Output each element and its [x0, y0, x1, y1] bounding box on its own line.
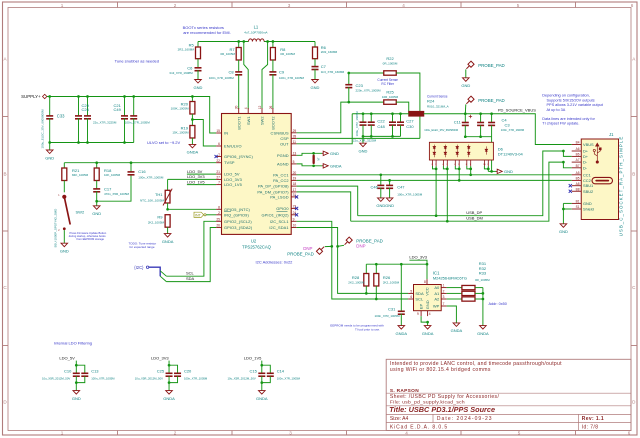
junction R28 SDA	[365, 292, 368, 295]
wire R20-R19	[191, 114, 193, 126]
diode array D6 internal diodes	[433, 145, 488, 158]
no-connect U2 pin 1	[215, 155, 218, 158]
capacitor C6	[195, 68, 202, 71]
svg-text:TPS25762CAQ: TPS25762CAQ	[242, 244, 272, 249]
ground WP	[453, 323, 460, 327]
svg-text:TH1: TH1	[155, 192, 163, 197]
U2 pin 23 GPIO0 stub	[291, 207, 296, 209]
svg-text:4: 4	[405, 431, 408, 436]
junction boot rail 2	[242, 40, 245, 43]
svg-text:10R_1005M: 10R_1005M	[382, 95, 399, 99]
svg-text:KiCad E.D.A. 8.0.5: KiCad E.D.A. 8.0.5	[390, 424, 448, 430]
svg-text:A2: A2	[434, 297, 440, 302]
svg-text:21: 21	[216, 170, 220, 174]
wire C15 top	[261, 365, 263, 373]
wire C15 bottom	[261, 376, 263, 382]
svg-text:A0: A0	[434, 285, 440, 290]
no-connect J1 SBU1	[569, 184, 572, 187]
wire SDA	[166, 228, 216, 282]
svg-text:GND: GND	[559, 229, 568, 234]
svg-text:8: 8	[218, 205, 220, 209]
wire SW2 pin	[262, 42, 268, 110]
wire D6 channel 2 drop	[446, 166, 448, 221]
junction vbus rail 4	[399, 112, 402, 115]
wire C49 bottom	[133, 118, 135, 142]
wire R31 left	[447, 287, 462, 289]
svg-text:EN/ULVO: EN/ULVO	[224, 144, 242, 149]
junction R22 C23	[347, 72, 350, 75]
U2 pin 22 TVSP stub	[216, 162, 221, 164]
junction SDA probe	[336, 245, 339, 248]
svg-text:PROBE_PAD: PROBE_PAD	[478, 63, 505, 68]
svg-text:for expected range: for expected range	[130, 245, 155, 249]
svg-text:100u_ELEC_35V_6605800M: 100u_ELEC_35V_6605800M	[424, 128, 458, 132]
switch SW2 lever	[64, 197, 70, 225]
svg-text:PPS allows 3-21V variable outp: PPS allows 3-21V variable output	[547, 103, 604, 107]
svg-text:Sheet: /USBC PD Supply for Acc: Sheet: /USBC PD Supply for Accessories/	[390, 394, 500, 400]
capacitor C8	[235, 72, 242, 75]
wire C3 bottom	[491, 125, 493, 136]
capacitor C16	[128, 172, 135, 175]
capacitor C26	[84, 116, 91, 119]
resistor R7	[236, 48, 241, 61]
svg-text:3: 3	[443, 295, 445, 299]
ground C46	[378, 198, 385, 202]
svg-text:DNP: DNP	[356, 243, 365, 248]
ground C31	[398, 326, 405, 330]
svg-text:9: 9	[417, 312, 419, 316]
svg-text:C9: C9	[279, 70, 285, 75]
wire WP	[447, 306, 457, 323]
title block box	[386, 359, 631, 430]
svg-text:3: 3	[288, 3, 291, 8]
capacitor C31	[398, 311, 405, 314]
wire probe pad 3	[338, 245, 344, 246]
J1 pin B5 CC2 stub	[572, 179, 582, 181]
junction C17 C16	[95, 200, 98, 203]
svg-text:BOOT2: BOOT2	[271, 117, 276, 130]
U2 pin 29 CSN/BUS stub	[291, 132, 296, 134]
wire R18-C17	[96, 181, 98, 189]
wire R7 top	[238, 42, 240, 48]
svg-text:GND: GND	[461, 83, 470, 88]
svg-text:CC2: CC2	[583, 178, 591, 183]
wire C7 gnd	[314, 69, 316, 80]
wire LDO_3V3 stub	[168, 361, 170, 366]
junction supply rail 1	[48, 95, 51, 98]
wire LDO_1V5	[187, 184, 216, 186]
junction supply rail 2	[77, 95, 80, 98]
ground LDO_3V3 filter	[166, 391, 173, 395]
U2 pin 11 OUT stub	[291, 143, 296, 145]
svg-text:20: 20	[293, 171, 297, 175]
svg-text:28: 28	[293, 135, 297, 139]
svg-text:are recommended for EMI.: are recommended for EMI.	[183, 30, 231, 35]
wire J1 gnd S1	[563, 208, 571, 210]
wire C30 bottom	[400, 125, 402, 136]
svg-text:PGND: PGND	[277, 153, 289, 158]
svg-text:18: 18	[293, 182, 297, 186]
svg-text:{I2C}: {I2C}	[134, 265, 144, 270]
wire USB_DP	[358, 151, 564, 216]
svg-text:DNP: DNP	[303, 246, 312, 251]
junction output gnd	[490, 170, 493, 173]
svg-text:4: 4	[244, 107, 248, 109]
wire C17-C16 rail	[97, 174, 131, 201]
svg-text:4: 4	[402, 3, 405, 8]
wire D6 channel 2 hook	[443, 166, 447, 169]
wire I2C_SCL1	[297, 221, 409, 299]
svg-text:LDO_5V: LDO_5V	[187, 169, 203, 174]
wire LDO_3V3 eeprom	[409, 260, 427, 279]
capacitor C27	[389, 122, 396, 125]
svg-text:C15: C15	[249, 368, 257, 373]
wire TH1 bottom	[167, 203, 169, 209]
wire C14 bottom	[262, 376, 271, 382]
svg-text:0R_1005M: 0R_1005M	[383, 61, 398, 65]
svg-text:C23: C23	[356, 83, 364, 88]
svg-text:At up to 3A: At up to 3A	[547, 108, 566, 112]
wire PA_DP	[297, 186, 358, 216]
svg-text:19: 19	[293, 177, 297, 181]
svg-text:C49: C49	[114, 107, 122, 112]
ground C47	[386, 198, 393, 202]
svg-text:GND: GND	[583, 201, 592, 206]
junction boot rail 3	[266, 40, 269, 43]
wire C31 top	[400, 264, 402, 311]
svg-text:100n_X7R_1005M: 100n_X7R_1005M	[279, 76, 305, 80]
J1 pin B4 VBUS stub	[572, 144, 582, 146]
diode array D6 pin stubs	[433, 160, 489, 166]
capacitor C48	[368, 122, 375, 125]
wire C33 bottom	[49, 118, 51, 142]
svg-text:2K2_1005M: 2K2_1005M	[383, 281, 400, 285]
wire C22 bottom	[362, 125, 364, 136]
wire C27 bottom	[392, 125, 394, 136]
wire C47 gnd	[389, 188, 391, 198]
svg-text:RC Filter: RC Filter	[381, 82, 395, 86]
capacitor C23	[345, 85, 352, 88]
IC1 pin 7 stub	[441, 305, 446, 307]
capacitor C33 plates	[46, 116, 53, 119]
junction supply rail 5	[132, 95, 135, 98]
svg-text:5: 5	[410, 290, 412, 294]
svg-text:A1: A1	[434, 291, 440, 296]
ground LDO_1V5 filter	[259, 391, 266, 395]
switch SW2 top contact	[62, 195, 66, 199]
resistor R31	[462, 285, 475, 289]
junction CC2 D6	[458, 179, 461, 182]
svg-text:100K_1005M: 100K_1005M	[171, 107, 189, 111]
no-connect U2 GPIO0	[295, 207, 298, 210]
wire R5 top	[197, 42, 199, 48]
svg-text:C27: C27	[406, 119, 414, 124]
wire CSN/BUS	[297, 102, 384, 133]
wire C47 top	[389, 180, 391, 185]
wire C20 bottom	[169, 376, 178, 382]
svg-text:10K_1005M: 10K_1005M	[104, 173, 121, 177]
J1 pin A8 SBU1 stub	[572, 185, 582, 187]
IC IC1 body	[414, 285, 442, 311]
wire LDO_5V branch top	[76, 365, 85, 373]
wire output caps ground rail	[465, 136, 491, 138]
svg-text:GNDA: GNDA	[162, 239, 174, 244]
junction boot rail 4	[272, 40, 275, 43]
wire PGND	[297, 153, 322, 155]
svg-text:GNDA: GNDA	[477, 331, 489, 336]
bus I2C	[149, 267, 160, 276]
svg-text:LDO_3V3: LDO_3V3	[151, 355, 169, 360]
svg-text:Id: 7/8: Id: 7/8	[582, 424, 599, 430]
svg-text:PA_LSGD: PA_LSGD	[270, 194, 289, 199]
svg-text:26: 26	[269, 105, 273, 109]
svg-text:Supports 5/9/15/20V outputs: Supports 5/9/15/20V outputs	[547, 98, 595, 102]
junction D6 channel 3	[458, 168, 461, 171]
svg-text:SUPPLY+: SUPPLY+	[21, 94, 41, 99]
junction LDO_5V top	[75, 364, 78, 367]
title block dividers	[386, 393, 631, 430]
svg-text:C31: C31	[388, 307, 396, 312]
junction output caps 0	[464, 135, 467, 138]
ground probe pad 1	[463, 78, 470, 82]
svg-text:EP: EP	[419, 304, 424, 310]
wire C23 bottom	[348, 87, 350, 102]
wire D6 gnd row	[488, 170, 496, 172]
svg-text:10u_X5R_2012M_50V: 10u_X5R_2012M_50V	[135, 376, 163, 380]
capacitor C9	[269, 72, 276, 75]
svg-text:Size: A4: Size: A4	[390, 416, 409, 422]
wire R25 right	[396, 102, 409, 114]
svg-text:D+: D+	[583, 149, 589, 154]
wire R21-SW2	[63, 181, 65, 193]
wire TH1 to GPIO5	[168, 208, 217, 210]
junction D6 channel 1	[435, 168, 438, 171]
svg-text:BOOT1: BOOT1	[236, 117, 241, 130]
svg-text:LDO_1V5: LDO_1V5	[244, 355, 262, 360]
junction D6 channel 4	[469, 168, 472, 171]
U2 pin 24 GPIO1_(IRQ2) stub	[291, 214, 296, 216]
svg-text:GPIO5_(NTC): GPIO5_(NTC)	[224, 207, 251, 212]
svg-text:10u_X5R_2012M_50V: 10u_X5R_2012M_50V	[42, 376, 70, 380]
U2 pin 21 LDO_5V stub	[216, 173, 221, 175]
U2 top pin 12 SW2 stub	[261, 108, 263, 113]
wire R22 right	[396, 73, 420, 138]
svg-text:2: 2	[218, 211, 220, 215]
wire pullup rail	[366, 263, 427, 265]
IC1 pin 3 stub	[441, 298, 446, 300]
resistor R32	[462, 291, 475, 295]
resistor R26	[374, 274, 379, 287]
wire LDO_5V stub	[75, 361, 77, 366]
svg-text:8: 8	[424, 280, 426, 284]
sheet frame row letters	[3, 57, 636, 405]
svg-text:C10: C10	[64, 368, 72, 373]
svg-text:I2C Addresses: 0x22: I2C Addresses: 0x22	[256, 260, 294, 265]
svg-text:100n_X7R_1005M: 100n_X7R_1005M	[138, 175, 164, 179]
net tie NT1	[313, 155, 315, 165]
svg-text:GND: GND	[45, 155, 54, 160]
svg-text:D+: D+	[583, 154, 589, 159]
wire D6 channel 3 hook	[455, 166, 459, 169]
junction DP pins	[562, 150, 565, 153]
wire R28 top	[365, 264, 367, 273]
svg-text:Depending on configuration,: Depending on configuration,	[542, 94, 590, 98]
svg-text:C47: C47	[397, 184, 405, 189]
junction rail C31	[400, 263, 403, 266]
svg-text:GND: GND	[504, 169, 513, 174]
svg-text:I2C_SDA1: I2C_SDA1	[269, 225, 288, 230]
svg-text:29: 29	[293, 129, 297, 133]
svg-text:1: 1	[443, 284, 445, 288]
capacitor C15	[258, 373, 265, 376]
capacitor C20	[174, 373, 181, 376]
U2 top pin 30 BOOT1 stub	[238, 108, 240, 113]
svg-text:C7: C7	[321, 64, 327, 69]
wire LDO_3V3	[168, 178, 217, 180]
wire C46 gnd	[380, 188, 382, 198]
U2 pin 28 CSP stub	[291, 137, 296, 139]
svg-text:10: 10	[293, 224, 297, 228]
svg-text:GPIO3_(SDA2): GPIO3_(SDA2)	[224, 225, 253, 230]
ground R31 R32 R33	[480, 326, 487, 330]
svg-text:100n_X7R_1005M: 100n_X7R_1005M	[375, 314, 401, 318]
wire C48 top	[370, 114, 372, 122]
IC1 pin 2 stub	[441, 292, 446, 294]
wire D6 channel 5 drop	[487, 166, 489, 171]
svg-text:SDA: SDA	[186, 276, 195, 281]
svg-text:4u7_10P7050mA: 4u7_10P7050mA	[244, 30, 267, 34]
wire CSP	[297, 137, 420, 139]
wire R20 top	[191, 97, 193, 102]
IC1 pin EP stub	[420, 311, 422, 316]
U2 pin 9 I2C_SCL1 stub	[291, 220, 296, 222]
svg-text:6: 6	[218, 142, 220, 146]
svg-text:11: 11	[293, 140, 297, 144]
svg-text:ULVO set to ~9.2V: ULVO set to ~9.2V	[147, 140, 180, 145]
svg-text:Internal LDO Filtering: Internal LDO Filtering	[54, 341, 92, 346]
U2 pin 7 LDO_1V5 stub	[216, 184, 221, 186]
svg-text:0R_1005M: 0R_1005M	[475, 278, 490, 282]
junction CSN C23	[347, 101, 350, 104]
U2 pin 31 PA_LSGD stub	[291, 196, 296, 198]
resistor R8	[270, 48, 275, 61]
wire C10 top	[75, 365, 77, 373]
svg-text:26: 26	[216, 224, 220, 228]
capacitor C29	[75, 116, 82, 119]
diode array D6 body	[429, 142, 493, 160]
no-connect U2 GPIO1	[295, 213, 298, 216]
U2 pin 1 GPIO6_(SYNC) stub	[216, 156, 221, 158]
resistor R6	[313, 47, 318, 59]
wire PA_CC1	[297, 174, 572, 176]
wire C25 bottom	[168, 376, 170, 382]
junction cap bank 0	[362, 135, 365, 138]
probe pad 4	[316, 247, 324, 255]
inductor L1	[249, 39, 265, 42]
wire USB_DM	[351, 162, 564, 221]
J1 pin B1 GND stub	[572, 202, 582, 204]
svg-text:A5: A5	[576, 171, 580, 175]
J1 pin S1 Shield stub	[572, 208, 582, 210]
J1 pin A6 D+ stub	[572, 150, 582, 152]
svg-text:SBU1: SBU1	[583, 183, 593, 188]
svg-text:B8: B8	[576, 187, 580, 191]
svg-text:2R2_1608M: 2R2_1608M	[321, 50, 338, 54]
resistor R33	[462, 297, 475, 301]
resistor R21	[62, 168, 67, 181]
svg-text:GNDA: GNDA	[396, 331, 408, 336]
wire AGND	[297, 164, 322, 166]
capacitor C14	[267, 373, 274, 376]
svg-text:GPIO6_(SYNC): GPIO6_(SYNC)	[224, 154, 253, 159]
junction ground rail 2	[86, 141, 89, 144]
svg-text:GPIO2_(SCL2): GPIO2_(SCL2)	[224, 219, 252, 224]
wire R5-C6	[197, 59, 199, 68]
J1 pin B6 D+ stub	[572, 155, 582, 157]
wire D6 channel 4 drop	[470, 166, 472, 175]
wire R22 row	[349, 72, 384, 74]
svg-text:GNDA: GNDA	[256, 396, 268, 401]
wire R26 top	[375, 264, 377, 273]
svg-text:INT: INT	[195, 214, 202, 218]
wire C11 bottom	[464, 125, 466, 136]
svg-text:2: 2	[443, 290, 445, 294]
sheet frame column ticks	[118, 2, 576, 435]
wire LDO_1V5 gnd	[261, 383, 263, 391]
wire C4 bottom	[480, 125, 482, 136]
svg-text:15: 15	[216, 129, 220, 133]
svg-text:GND: GND	[72, 396, 81, 401]
capacitor C3	[488, 123, 495, 126]
svg-text:B5: B5	[576, 177, 580, 181]
U2 pin 24 IRQ2 overbar	[277, 211, 288, 213]
svg-text:100n_X7R_1005M: 100n_X7R_1005M	[184, 376, 208, 380]
resistor R22	[384, 71, 397, 75]
IC1 pin 4 GND stub	[427, 311, 429, 316]
svg-text:C3: C3	[505, 123, 511, 128]
capacitor C13	[81, 373, 88, 376]
bus I2C circle	[146, 266, 148, 268]
wire R8-C9	[272, 60, 274, 72]
svg-text:C13: C13	[91, 368, 99, 373]
junction AGND	[312, 164, 315, 167]
junction CC2 C47	[388, 179, 391, 182]
junction supply rail 6	[191, 95, 194, 98]
svg-text:TI chipset FW update.: TI chipset FW update.	[542, 122, 579, 126]
svg-text:Addr: 0x50: Addr: 0x50	[489, 302, 507, 306]
wire PA_CC2	[297, 179, 572, 181]
J1 pin B8 SBU2 stub	[572, 190, 582, 192]
U2 pin 6 EN/ULVO stub	[216, 145, 221, 147]
connector J1 receptacle icon	[592, 177, 613, 183]
junction IC1 gnd	[426, 321, 429, 324]
svg-text:Rev: 1.1: Rev: 1.1	[582, 416, 604, 422]
svg-text:1: 1	[218, 153, 220, 157]
IC1 pin 6 stub	[408, 298, 413, 300]
junction D6 channel 2	[446, 168, 449, 171]
svg-text:IRQ_(GPIO9): IRQ_(GPIO9)	[224, 212, 249, 217]
wire vbus rail	[352, 113, 409, 115]
svg-text:USB_C_SOCKET_RA_PTH_SIMPLE: USB_C_SOCKET_RA_PTH_SIMPLE	[619, 136, 624, 237]
hierarchical label INT	[194, 212, 206, 218]
wire C31 bottom	[400, 314, 402, 326]
wire LDO_1V5 branch top	[262, 365, 271, 373]
svg-text:2K2_1005M: 2K2_1005M	[348, 281, 365, 285]
wire C21 bottom	[124, 118, 126, 142]
wire INT to IRQ	[206, 214, 216, 216]
svg-text:1: 1	[61, 431, 64, 436]
svg-text:6: 6	[631, 3, 634, 8]
